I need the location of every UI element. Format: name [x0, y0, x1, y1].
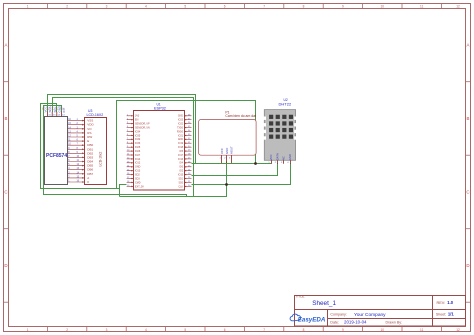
IC U4 PCF8574 — [45, 117, 68, 185]
svg-text:1/1: 1/1 — [448, 312, 454, 317]
frame ticks top — [47, 4, 441, 9]
svg-text:IO18: IO18 — [178, 147, 184, 149]
PCF8574 top pin numbers — [48, 115, 65, 117]
wire GND line: ESP32 right pin to DHT GND with junction branch — [192, 163, 291, 185]
svg-text:3: 3 — [106, 5, 108, 9]
svg-text:2: 2 — [66, 328, 68, 332]
svg-text:10: 10 — [381, 5, 385, 9]
svg-text:B: B — [5, 116, 8, 121]
frame ticks right — [466, 82, 471, 303]
svg-text:IO21: IO21 — [178, 135, 184, 137]
svg-text:REV:: REV: — [437, 301, 446, 305]
svg-text:IO33: IO33 — [135, 142, 141, 145]
svg-text:C: C — [466, 190, 469, 195]
svg-text:7: 7 — [263, 5, 265, 9]
svg-text:Company:: Company: — [330, 313, 346, 317]
svg-text:SD3: SD3 — [135, 177, 140, 180]
svg-text:6: 6 — [224, 5, 226, 9]
svg-text:ESP32: ESP32 — [154, 107, 166, 111]
svg-text:IO19: IO19 — [178, 143, 184, 145]
svg-text:DATA: DATA — [275, 153, 279, 160]
svg-text:SD2: SD2 — [135, 174, 140, 177]
svg-text:CMD: CMD — [135, 181, 141, 184]
frame ticks bottom — [47, 327, 441, 332]
svg-text:IO26: IO26 — [135, 150, 141, 153]
module U1 ESP32 — [134, 103, 185, 191]
svg-text:11: 11 — [420, 328, 424, 332]
PCF8574 top pin labels — [44, 105, 66, 113]
svg-text:10: 10 — [381, 328, 385, 332]
svg-text:6: 6 — [224, 328, 226, 332]
P1 pin labels — [220, 146, 233, 154]
LCD U3 LCD-16X2 — [85, 109, 107, 185]
svg-text:IO13: IO13 — [135, 170, 141, 173]
svg-text:GND: GND — [178, 116, 183, 118]
svg-text:SD1: SD1 — [179, 178, 184, 180]
svg-text:IO16: IO16 — [178, 159, 184, 161]
wire net4: PCF pin4 left loop along bottom wire B2 up to ESP32 bottom right pin — [44, 106, 187, 197]
svg-text:IO22: IO22 — [178, 124, 184, 126]
PCF8574 to LCD pin row stubs with numbers — [67, 119, 94, 184]
svg-text:Sheet:: Sheet: — [436, 313, 446, 317]
svg-text:4: 4 — [145, 5, 147, 9]
svg-text:5: 5 — [184, 328, 186, 332]
wire net2: PCF pin2 across top, down right of ESP32 to ESP32 bottom right pin — [53, 98, 194, 197]
PCF8574 top pin stubs — [48, 112, 62, 117]
svg-text:IO27: IO27 — [135, 154, 141, 157]
svg-text:GND: GND — [135, 166, 141, 169]
svg-text:NC: NC — [282, 156, 286, 160]
svg-text:Date:: Date: — [330, 321, 339, 325]
svg-text:DHT22: DHT22 — [279, 102, 292, 107]
svg-text:Drawn By:: Drawn By: — [386, 321, 403, 325]
svg-text:IO23: IO23 — [178, 120, 184, 122]
wire DATA line: ESP32 right pin to DHT DATA — [192, 163, 278, 176]
svg-text:8: 8 — [303, 5, 305, 9]
svg-text:SD0: SD0 — [179, 182, 184, 184]
svg-text:IO34: IO34 — [135, 130, 141, 133]
svg-text:4: 4 — [145, 328, 147, 332]
svg-text:TXD0: TXD0 — [177, 128, 184, 130]
svg-text:9: 9 — [342, 5, 344, 9]
svg-text:A: A — [467, 43, 470, 48]
svg-text:C: C — [4, 190, 7, 195]
wire net1: PCF pin1 to vertical right of ESP32 down to VCC line — [48, 95, 196, 164]
wire net3: PCF pin3 left loop down to bottom wire B1 — [41, 104, 120, 189]
svg-text:LCD-16X2: LCD-16X2 — [87, 113, 104, 117]
svg-text:VCC: VCC — [220, 148, 224, 154]
svg-text:3: 3 — [106, 328, 108, 332]
svg-text:2019-10-04: 2019-10-04 — [344, 320, 367, 325]
svg-text:B: B — [467, 116, 470, 121]
svg-text:SENSOR_VP: SENSOR_VP — [135, 123, 150, 126]
svg-text:IO25: IO25 — [135, 146, 141, 149]
svg-text:9: 9 — [342, 328, 344, 332]
wire box net: vertical channel between LCD and ESP32 over top to VCC junction — [117, 101, 256, 189]
svg-text:GND: GND — [225, 148, 229, 154]
svg-text:11: 11 — [420, 5, 424, 9]
svg-text:EXT_5V: EXT_5V — [135, 185, 144, 188]
svg-text:D: D — [4, 263, 7, 268]
WIRES (green) — [41, 95, 291, 197]
svg-text:IO32: IO32 — [135, 138, 141, 141]
svg-text:TITLE:: TITLE: — [296, 294, 306, 298]
wire ESP32 left bottom pin stub wire — [120, 185, 127, 197]
svg-text:Cam bien do am dat: Cam bien do am dat — [225, 114, 256, 118]
svg-text:8: 8 — [303, 328, 305, 332]
svg-text:IO15: IO15 — [178, 175, 184, 177]
frame ticks left — [4, 82, 9, 303]
junction dot at GND line — [225, 183, 228, 186]
svg-text:RXD0: RXD0 — [177, 131, 184, 133]
junction dot at VCC line — [254, 162, 257, 165]
svg-text:EN: EN — [135, 119, 139, 122]
frame row letters right A B C D — [466, 43, 469, 269]
svg-text:Sheet_1: Sheet_1 — [312, 300, 336, 307]
svg-text:5: 5 — [184, 5, 186, 9]
svg-text:K: K — [87, 180, 89, 184]
svg-text:3V3: 3V3 — [135, 115, 140, 118]
svg-text:Your Company: Your Company — [354, 312, 386, 318]
sensor U2 DHT22 — [263, 98, 296, 164]
svg-text:1: 1 — [27, 328, 29, 332]
title block outline — [295, 296, 466, 327]
svg-text:12: 12 — [456, 5, 460, 9]
P1 pin numbers — [220, 158, 232, 160]
svg-text:IO17: IO17 — [178, 155, 184, 157]
svg-text:LCD-16x2: LCD-16x2 — [99, 151, 103, 166]
svg-text:CLK: CLK — [179, 186, 184, 188]
svg-text:IO12: IO12 — [135, 162, 141, 165]
svg-text:12: 12 — [456, 328, 460, 332]
svg-text:IO35: IO35 — [135, 134, 141, 137]
svg-text:7: 7 — [263, 328, 265, 332]
EasyEDA logo — [290, 314, 326, 323]
svg-text:EasyEDA: EasyEDA — [298, 316, 326, 323]
frame column numbers top — [27, 5, 460, 9]
svg-text:SENSOR_VN: SENSOR_VN — [135, 127, 150, 130]
svg-text:1.0: 1.0 — [447, 300, 453, 305]
svg-text:GND: GND — [178, 139, 183, 141]
svg-text:1: 1 — [27, 5, 29, 9]
connector P1 Cam bien do am dat — [199, 110, 257, 155]
svg-text:GND: GND — [288, 154, 292, 160]
svg-text:A: A — [5, 43, 8, 48]
frame row letters left A B C D — [4, 43, 7, 269]
frame column numbers bottom — [27, 328, 460, 332]
ESP32 pin stubs, numbers and names — [127, 114, 192, 188]
svg-text:PCF8574: PCF8574 — [46, 153, 67, 159]
svg-text:IO14: IO14 — [135, 158, 141, 161]
svg-text:AOUT: AOUT — [229, 146, 233, 154]
svg-text:2: 2 — [66, 5, 68, 9]
wire VCC line: ESP32 right pin to P1 pins and DHT VCC — [192, 163, 272, 165]
svg-text:VCC: VCC — [269, 154, 273, 160]
wire P1 GND pin down through junction to bottom wire B3 — [120, 162, 227, 197]
P1 pin stubs — [222, 155, 232, 163]
svg-text:D: D — [466, 263, 469, 268]
